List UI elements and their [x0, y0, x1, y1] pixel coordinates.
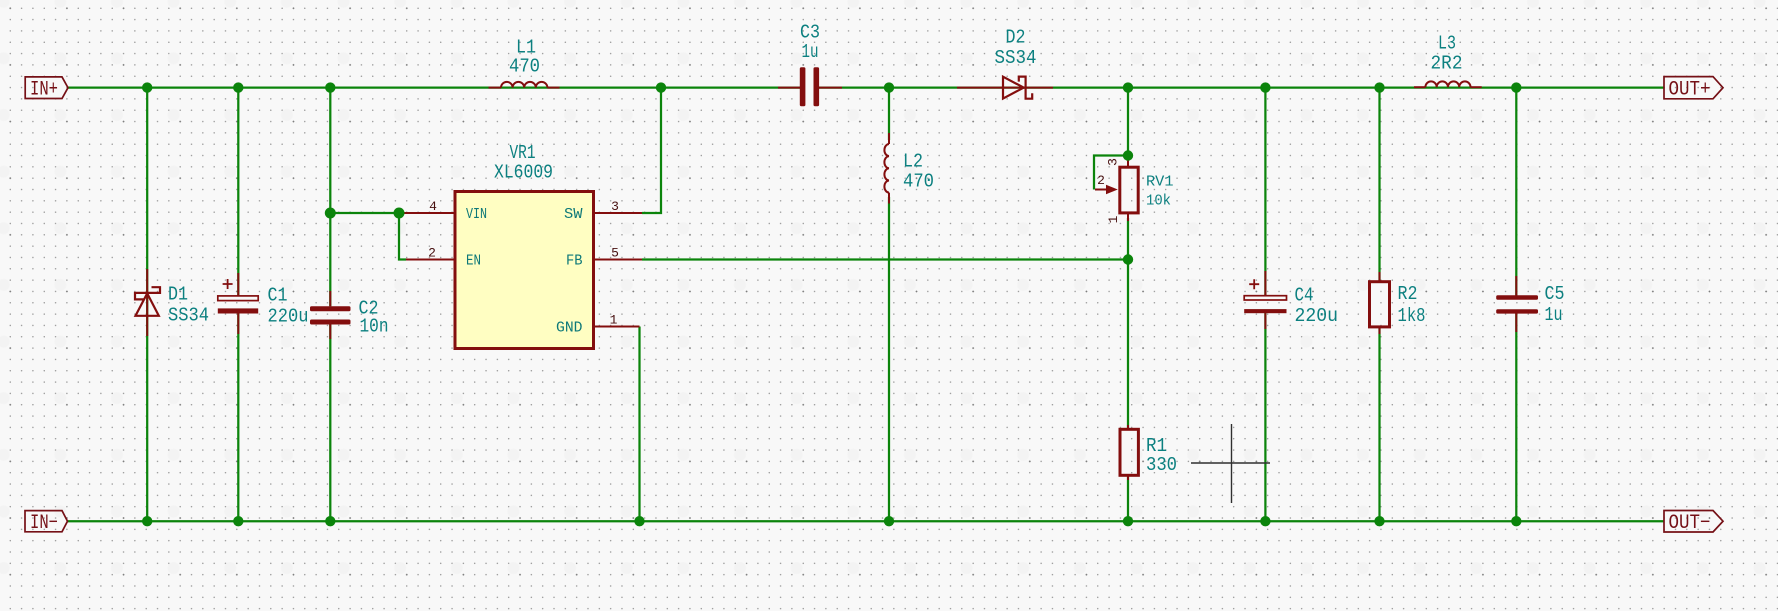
- wire C1 branch lower: [237, 313, 239, 521]
- pin stub L3 right: [1471, 86, 1482, 88]
- wire C4 branch lower: [1264, 313, 1266, 521]
- wire SW riser: [642, 88, 661, 213]
- diode D2 SS34: [1003, 77, 1032, 99]
- svg-text:SW: SW: [564, 206, 583, 223]
- junction VIN node C2 column: [325, 208, 336, 219]
- svg-text:C1: C1: [268, 285, 288, 307]
- capacitor C1: [218, 296, 258, 301]
- svg-text:1u: 1u: [802, 41, 819, 63]
- wire D1 branch vertical: [146, 88, 148, 522]
- svg-text:10n: 10n: [360, 316, 389, 338]
- wire RV1 to FB node: [1127, 218, 1129, 260]
- junction VIN node EN branch: [394, 208, 405, 219]
- wire L2 branch upper: [888, 88, 890, 140]
- capacitor C3: [800, 67, 819, 106]
- svg-text:SS34: SS34: [995, 47, 1037, 69]
- svg-text:EN: EN: [466, 252, 481, 269]
- junction top C1: [233, 82, 243, 92]
- pin 2 EN: [406, 259, 455, 261]
- pin stub C5 top: [1515, 276, 1517, 296]
- wire L2 branch lower: [888, 197, 890, 521]
- svg-text:3: 3: [611, 199, 619, 214]
- svg-text:D2: D2: [1006, 27, 1026, 49]
- capacitor C1 plus sign: [223, 279, 233, 289]
- junction top C4: [1260, 82, 1270, 92]
- junction bottom C1: [233, 516, 243, 526]
- wire VIN run node to node: [330, 212, 402, 214]
- svg-text:2R2: 2R2: [1431, 53, 1463, 75]
- pin 5 FB: [594, 259, 643, 261]
- svg-text:1: 1: [610, 313, 618, 328]
- junction bottom R2: [1374, 516, 1384, 526]
- op-amp U1 / regulator VR1 XL6009 body: [455, 192, 594, 349]
- svg-text:SS34: SS34: [168, 305, 209, 327]
- hierarchical label IN-: [25, 511, 68, 532]
- capacitor C4: [1244, 296, 1286, 300]
- wire bottom bus IN- to OUT-: [68, 520, 1665, 522]
- svg-text:3: 3: [1106, 158, 1121, 166]
- junction bottom D1: [142, 516, 152, 526]
- pin 4 VIN: [401, 212, 455, 214]
- resistor R2 stub top: [1379, 272, 1381, 282]
- wire EN branch: [399, 213, 406, 260]
- potentiometer RV1 pin 1 stub: [1127, 213, 1129, 221]
- pin stub L1 left: [489, 87, 502, 89]
- svg-text:FB: FB: [566, 252, 583, 269]
- wire RV1 wiper jumper: [1094, 156, 1128, 190]
- junction bottom C5: [1511, 516, 1521, 526]
- capacitor C5: [1496, 295, 1538, 313]
- pin stub C2 bottom: [329, 324, 331, 339]
- junction bottom R1: [1123, 516, 1133, 526]
- pin stub C2 top: [329, 291, 331, 306]
- svg-text:220u: 220u: [268, 306, 309, 328]
- resistor R2 stub bottom: [1379, 327, 1381, 334]
- pin stub C5 bottom: [1515, 313, 1517, 332]
- junction FB node: [1123, 254, 1133, 264]
- wire FB run: [642, 258, 1128, 260]
- wire GND drop: [638, 327, 640, 522]
- junction top C5: [1511, 82, 1521, 92]
- hierarchical label IN+: [25, 77, 68, 99]
- pin stub L2 top: [888, 133, 890, 144]
- svg-text:RV1: RV1: [1146, 174, 1174, 191]
- svg-text:220u: 220u: [1295, 305, 1339, 327]
- svg-text:IN+: IN+: [30, 78, 58, 101]
- pin 1 GND: [594, 326, 640, 328]
- junction top RV1 column: [1123, 82, 1133, 92]
- resistor R1: [1120, 429, 1138, 475]
- pin stub C3 right: [819, 87, 842, 89]
- svg-text:XL6009: XL6009: [494, 162, 553, 184]
- svg-text:470: 470: [509, 56, 540, 78]
- svg-text:GND: GND: [556, 319, 583, 336]
- junction bottom C4: [1260, 516, 1270, 526]
- inductor L2: [884, 144, 889, 193]
- capacitor C2: [310, 306, 351, 324]
- hierarchical label OUT-: [1664, 511, 1723, 533]
- inductor L3: [1425, 81, 1470, 87]
- pin stub D2 left: [957, 87, 1053, 89]
- svg-text:C5: C5: [1545, 283, 1565, 305]
- junction bottom C2: [325, 516, 335, 526]
- svg-text:330: 330: [1146, 454, 1177, 476]
- svg-text:OUT+: OUT+: [1669, 78, 1711, 101]
- junction RV1 top node: [1123, 150, 1133, 160]
- svg-text:L2: L2: [903, 151, 923, 173]
- svg-text:1u: 1u: [1545, 304, 1563, 326]
- potentiometer RV1 pin 3 stub: [1127, 158, 1129, 167]
- wire C4 branch upper: [1264, 88, 1266, 296]
- svg-text:2: 2: [1097, 173, 1105, 188]
- inductor L1: [501, 82, 547, 88]
- potentiometer RV1 wiper arrow: [1095, 189, 1107, 191]
- wire C2 branch lower: [329, 324, 331, 521]
- junction top SW riser: [656, 82, 666, 92]
- resistor R1 stub top: [1127, 425, 1129, 430]
- junction top R2: [1374, 82, 1384, 92]
- cursor crosshair: [1191, 424, 1270, 503]
- potentiometer RV1 body: [1120, 167, 1138, 213]
- svg-text:470: 470: [903, 171, 934, 193]
- junction top L2: [884, 82, 894, 92]
- wire top bus C3 right plate to OUT+: [819, 86, 1664, 88]
- svg-text:4: 4: [429, 199, 437, 214]
- wire FB node to R1: [1127, 260, 1129, 431]
- wire R2 branch upper: [1378, 88, 1380, 282]
- pin stub L3 left: [1414, 86, 1425, 88]
- wire C2 branch upper: [329, 88, 331, 307]
- pin stub D1 top: [146, 269, 148, 336]
- junction top D1: [142, 82, 152, 92]
- pin stub C4 bottom: [1264, 313, 1266, 329]
- junction bottom GND: [634, 516, 644, 526]
- svg-text:1: 1: [1106, 215, 1121, 223]
- resistor R1 stub bottom: [1127, 475, 1129, 480]
- junction top C2: [325, 82, 335, 92]
- svg-text:OUT−: OUT−: [1669, 512, 1711, 535]
- diode D1 SS34: [135, 287, 160, 316]
- svg-text:R2: R2: [1398, 283, 1418, 305]
- pin stub C3 left: [778, 87, 800, 89]
- svg-text:1k8: 1k8: [1398, 305, 1426, 327]
- wire C5 branch upper: [1515, 88, 1517, 296]
- resistor R2: [1370, 282, 1390, 327]
- wire C5 branch lower: [1515, 313, 1517, 521]
- pin stub C1 bottom: [237, 314, 239, 335]
- wire R2 branch lower: [1378, 328, 1380, 522]
- wire top bus IN+ to C3 left plate: [68, 86, 800, 88]
- svg-text:C4: C4: [1295, 285, 1314, 307]
- capacitor C4 plus sign: [1249, 279, 1259, 289]
- svg-text:VIN: VIN: [466, 206, 487, 223]
- junction bottom L2: [884, 516, 894, 526]
- svg-text:5: 5: [611, 246, 619, 261]
- svg-text:IN−: IN−: [30, 512, 58, 535]
- pin stub L2 bottom: [888, 193, 890, 204]
- wire R1 to bottom bus: [1127, 474, 1129, 521]
- wire C1 branch upper: [237, 88, 239, 296]
- pin 3 SW: [594, 212, 643, 214]
- svg-text:2: 2: [428, 246, 436, 261]
- pin stub C1 top: [237, 273, 239, 296]
- svg-text:10k: 10k: [1146, 193, 1171, 210]
- pin stub C4 top: [1264, 271, 1266, 296]
- pin stub L1 right: [547, 87, 559, 89]
- svg-text:L3: L3: [1438, 33, 1456, 55]
- svg-text:D1: D1: [168, 284, 188, 306]
- hierarchical label OUT+: [1664, 77, 1723, 99]
- wire D2 node to RV1 node: [1127, 88, 1129, 160]
